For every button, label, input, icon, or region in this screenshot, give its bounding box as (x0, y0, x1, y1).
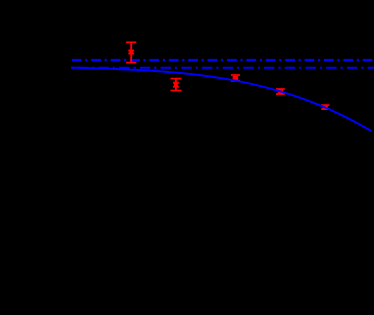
data point 4 error bar (276, 89, 285, 94)
upper dash-dot limit line (71, 59, 372, 62)
theory curve (solid) (71, 68, 372, 132)
lower dash-dot limit line (71, 67, 374, 69)
data point 1 error bar (126, 42, 136, 62)
data point 3 error bar (231, 75, 240, 81)
data point 2 error bar (171, 79, 182, 91)
data point 5 error bar (321, 105, 329, 109)
